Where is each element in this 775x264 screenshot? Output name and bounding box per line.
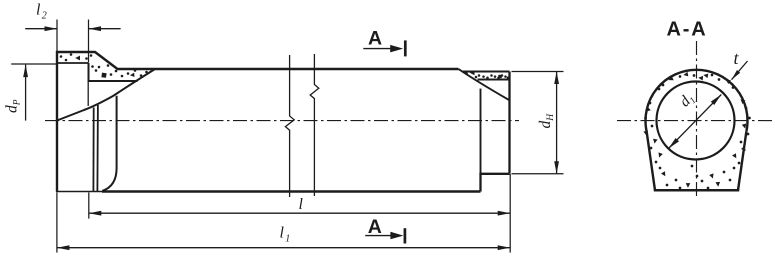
svg-text:A: A [368,28,382,50]
svg-text:l: l [299,196,304,213]
svg-text:l: l [36,2,41,19]
svg-text:l: l [280,225,285,242]
svg-text:2: 2 [42,11,47,22]
svg-text:A: A [368,216,382,238]
svg-text:A-A: A-A [667,19,708,41]
svg-text:1: 1 [285,234,290,245]
